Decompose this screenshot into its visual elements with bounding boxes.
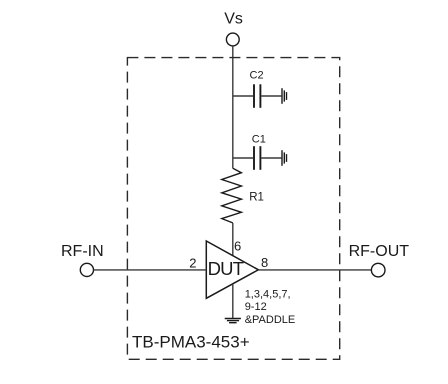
wire C2 left: [233, 95, 253, 97]
svg-text:R1: R1: [249, 192, 264, 204]
wire DUT bottom to ground: [232, 284, 234, 318]
svg-text:6: 6: [234, 239, 241, 254]
wire C1 left: [233, 157, 253, 159]
wire C2 right: [261, 95, 281, 97]
wire DUT pin 8 to RF-OUT: [259, 269, 372, 271]
svg-text:&PADDLE: &PADDLE: [245, 314, 296, 326]
svg-text:RF-IN: RF-IN: [61, 243, 104, 260]
svg-text:9-12: 9-12: [245, 301, 267, 313]
resistor R1: [222, 168, 242, 223]
wire RF-IN to DUT pin 2: [94, 269, 207, 271]
svg-text:8: 8: [261, 255, 268, 270]
svg-text:C1: C1: [252, 134, 266, 146]
svg-text:DUT: DUT: [208, 258, 244, 279]
ground (C2, rotated): [282, 88, 287, 104]
terminal RF-OUT: [371, 263, 385, 277]
test board boundary (dashed): [127, 58, 339, 360]
terminal RF-IN: [80, 263, 93, 276]
wire C1 right: [261, 157, 281, 159]
wire resistor to DUT pin 6: [232, 223, 234, 256]
svg-text:2: 2: [189, 255, 196, 270]
capacitor C2: [254, 84, 260, 108]
capacitor C1: [254, 146, 260, 170]
svg-text:TB-PMA3-453+: TB-PMA3-453+: [132, 333, 250, 352]
terminal Vs: [226, 33, 239, 46]
wire Vs to resistor top: [232, 46, 234, 168]
ground (DUT paddle): [225, 319, 241, 323]
amplifier DUT triangle: [206, 241, 258, 298]
svg-text:1,3,4,5,7,: 1,3,4,5,7,: [245, 288, 291, 300]
svg-text:C2: C2: [250, 70, 264, 82]
svg-text:RF-OUT: RF-OUT: [349, 243, 410, 260]
ground (C1, rotated): [282, 150, 287, 166]
svg-text:Vs: Vs: [224, 10, 243, 27]
